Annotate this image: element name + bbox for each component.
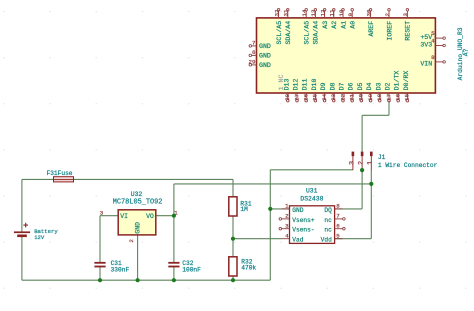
svg-text:D0/RX: D0/RX: [403, 71, 410, 91]
svg-text:1 Wire Connector: 1 Wire Connector: [378, 162, 438, 169]
svg-text:11: 11: [329, 9, 336, 16]
svg-text:A2: A2: [331, 21, 338, 29]
svg-text:A?: A?: [462, 48, 469, 56]
svg-text:F31Fuse: F31Fuse: [47, 170, 73, 177]
svg-text:12V: 12V: [34, 234, 45, 241]
svg-text:Vad: Vad: [292, 237, 303, 244]
svg-text:Vsens+: Vsens+: [292, 217, 315, 224]
svg-text:24: 24: [321, 93, 328, 100]
svg-text:26: 26: [303, 93, 310, 100]
svg-text:A0: A0: [350, 21, 357, 29]
svg-text:GND: GND: [259, 62, 271, 69]
svg-text:nc: nc: [324, 227, 332, 234]
svg-text:GND: GND: [259, 43, 271, 50]
svg-text:SDA/A4: SDA/A4: [285, 21, 292, 45]
svg-text:100nF: 100nF: [182, 267, 201, 274]
svg-text:Vdd: Vdd: [321, 237, 332, 244]
svg-text:7: 7: [252, 39, 256, 46]
svg-text:29: 29: [249, 58, 256, 65]
svg-text:D9: D9: [320, 82, 327, 90]
svg-text:31: 31: [283, 9, 290, 16]
svg-text:D10: D10: [311, 78, 318, 90]
svg-text:4: 4: [285, 232, 289, 239]
svg-text:1: 1: [367, 161, 375, 165]
svg-text:32: 32: [273, 9, 280, 16]
svg-text:GND: GND: [135, 222, 142, 234]
svg-text:18: 18: [376, 93, 383, 100]
svg-text:2: 2: [384, 13, 391, 17]
svg-text:8: 8: [336, 203, 340, 210]
svg-text:D6: D6: [348, 82, 355, 90]
svg-text:2: 2: [358, 161, 366, 165]
svg-text:DQ: DQ: [324, 207, 332, 214]
svg-text:3: 3: [402, 13, 409, 17]
svg-text:1M: 1M: [240, 206, 248, 213]
svg-text:6: 6: [252, 49, 256, 56]
svg-text:15: 15: [404, 93, 411, 100]
svg-text:3: 3: [100, 209, 104, 216]
svg-text:GND: GND: [292, 207, 303, 214]
svg-text:30: 30: [365, 9, 372, 16]
svg-text:17: 17: [385, 93, 392, 100]
svg-text:5: 5: [336, 232, 340, 239]
svg-text:D8: D8: [329, 82, 336, 90]
svg-text:nc: nc: [324, 217, 332, 224]
svg-text:12: 12: [319, 9, 326, 16]
svg-text:21: 21: [349, 93, 356, 100]
svg-text:19: 19: [367, 93, 374, 100]
svg-text:1: 1: [285, 203, 289, 210]
svg-text:7: 7: [336, 213, 340, 220]
svg-text:470k: 470k: [241, 264, 256, 271]
svg-text:SCL/A5: SCL/A5: [304, 21, 311, 45]
svg-text:VI: VI: [120, 213, 128, 220]
svg-text:MC78L05_TO92: MC78L05_TO92: [113, 198, 163, 206]
svg-text:GND: GND: [259, 53, 271, 60]
svg-text:D7: D7: [339, 82, 346, 90]
svg-text:AREF: AREF: [368, 21, 375, 37]
svg-text:A3: A3: [322, 21, 329, 29]
svg-text:VO: VO: [146, 213, 154, 220]
svg-text:U31: U31: [306, 187, 318, 194]
svg-text:VIN: VIN: [420, 60, 432, 67]
svg-text:3: 3: [285, 222, 289, 229]
svg-text:U32: U32: [131, 191, 143, 198]
svg-text:9: 9: [347, 13, 354, 17]
svg-text:16: 16: [395, 93, 402, 100]
svg-text:Vsens-: Vsens-: [292, 227, 314, 234]
svg-text:A1: A1: [340, 21, 347, 29]
svg-text:330nF: 330nF: [111, 267, 130, 274]
svg-text:25: 25: [312, 93, 319, 100]
svg-text:D12: D12: [293, 78, 300, 90]
svg-text:D3: D3: [375, 82, 382, 90]
svg-text:SCL/A5: SCL/A5: [276, 21, 283, 45]
svg-text:DS2438: DS2438: [300, 195, 323, 202]
svg-text:27: 27: [293, 93, 300, 100]
svg-text:3V3: 3V3: [420, 41, 432, 48]
svg-text:13: 13: [310, 9, 317, 16]
svg-text:2: 2: [128, 239, 135, 243]
svg-text:RESET: RESET: [405, 21, 412, 41]
svg-text:6: 6: [336, 222, 340, 229]
svg-text:2: 2: [285, 213, 289, 220]
svg-text:D1/TX: D1/TX: [394, 71, 401, 91]
svg-text:IOREF: IOREF: [386, 21, 393, 41]
svg-text:28: 28: [284, 93, 291, 100]
svg-text:20: 20: [358, 93, 365, 100]
svg-text:22: 22: [339, 93, 346, 100]
svg-text:D5: D5: [357, 82, 364, 90]
svg-text:3: 3: [348, 161, 356, 165]
svg-text:1 NC: 1 NC: [278, 75, 285, 91]
svg-text:D4: D4: [366, 82, 373, 90]
svg-text:SDA/A4: SDA/A4: [313, 21, 320, 45]
svg-text:D11: D11: [302, 78, 309, 90]
svg-text:D2: D2: [385, 82, 392, 90]
svg-text:10: 10: [338, 9, 345, 16]
svg-text:J1: J1: [378, 154, 386, 161]
svg-text:23: 23: [330, 93, 337, 100]
svg-text:14: 14: [301, 9, 308, 16]
